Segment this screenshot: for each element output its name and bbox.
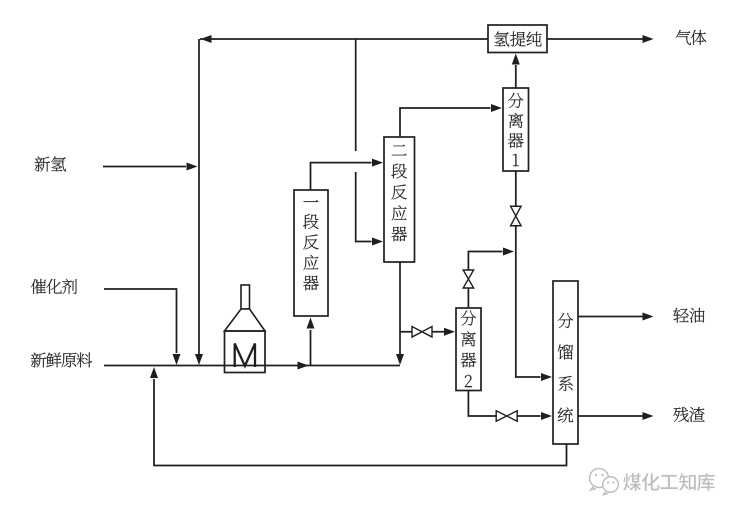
- wire reactor2 bottom drop: [399, 262, 401, 354]
- wire reactor2 bottoms branch to separator2: [400, 331, 445, 333]
- label 二段反应器: [392, 145, 407, 156]
- label 分馏系统: [558, 313, 573, 328]
- wire riser into reactor1: [310, 330, 312, 366]
- arrowhead right gas outlet: [643, 35, 654, 43]
- wire light-oil outlet: [578, 316, 644, 318]
- wire main feed line: [104, 365, 400, 367]
- wire H2-purifier to gas outlet: [547, 38, 644, 40]
- wire residue outlet: [578, 415, 644, 417]
- wire separator1 top to H2-purifier: [515, 65, 517, 88]
- label 气体 gas: [676, 30, 691, 45]
- reactor1 box 一段反应器: [294, 190, 328, 316]
- valve V3 on separator2 gas: [463, 270, 474, 288]
- valve V2 on separator1 bottoms: [511, 206, 522, 226]
- arrowhead right light-oil: [643, 313, 654, 321]
- separator1 box 分离器1: [503, 88, 529, 171]
- valve V1 on separator2 feed: [412, 327, 432, 338]
- arrowhead right into separator2 inlet: [444, 328, 455, 336]
- arrowhead down catalyst onto feed line: [173, 354, 181, 365]
- mixer M body: [225, 331, 266, 373]
- wire recycle-H2 left downcomer: [198, 39, 200, 354]
- arrowhead right on feed line: [298, 362, 309, 370]
- arrowhead right into fractionator upper inlet: [541, 373, 552, 381]
- label 催化剂 catalyst: [31, 279, 46, 294]
- wire new-hydrogen inlet: [103, 166, 186, 168]
- watermark chat-bubble icon: [590, 469, 619, 495]
- arrowhead up into reactor1 bottom: [307, 318, 315, 329]
- wire fractionator bottoms recycle: [154, 379, 567, 466]
- wire separator1 bottom upper segment: [515, 171, 517, 206]
- arrowhead right into reactor2 upper inlet: [372, 159, 383, 167]
- watermark text 煤化工知库: [623, 473, 641, 491]
- wire separator2 top gas upper: [467, 288, 469, 308]
- label 残渣 residue: [673, 407, 688, 422]
- label 新氢 new hydrogen: [35, 156, 50, 171]
- wire reactor2 top to separator1: [400, 108, 491, 137]
- reactor2 box 二段反应器: [384, 137, 415, 262]
- arrowhead right into fractionator lower inlet: [541, 412, 552, 420]
- arrowhead right joining separator1 bottoms line: [503, 248, 514, 256]
- label 新鲜原料 fresh feed: [31, 352, 46, 367]
- fractionator box 分馏系统: [553, 281, 578, 444]
- label 分离器2: [461, 310, 476, 325]
- label 一段反应器: [304, 200, 319, 202]
- valve V4 on separator2 bottoms: [496, 411, 517, 422]
- wire separator1 bottoms to fractionator: [516, 226, 541, 377]
- label 轻油 light oil: [673, 308, 688, 323]
- wire separator2 gas join: [468, 252, 502, 271]
- mixer M neck: [241, 285, 250, 309]
- wire recycle-H2 top header: [200, 38, 488, 40]
- label 氢提纯: [494, 31, 509, 46]
- arrowhead right residue: [643, 412, 654, 420]
- arrowhead up recycle into feed line: [150, 367, 158, 378]
- arrowhead up into H2-purifier: [512, 54, 520, 65]
- arrowhead down onto feed line x=199: [195, 354, 203, 365]
- wire reactor1 top to reactor2 inlet: [311, 163, 372, 190]
- mixer M hopper: [225, 309, 266, 331]
- separator2 box 分离器2: [456, 308, 481, 391]
- arrowhead right into separator1 inlet: [491, 104, 502, 112]
- label 分离器1: [508, 93, 523, 108]
- wire separator2 bottoms: [468, 391, 540, 417]
- arrowhead down reactor2 bottoms onto feed line: [396, 354, 404, 365]
- arrowhead right into reactor2 lower inlet: [372, 238, 383, 246]
- mixer M letter: [235, 344, 255, 368]
- wire catalyst inlet: [104, 289, 177, 353]
- arrowhead left at top header corner: [201, 35, 212, 43]
- H2-purifier box 氢提纯: [488, 25, 547, 53]
- wire H2 branch vertical upper: [355, 39, 357, 151]
- wire H2 branch vertical lower + inlet to reactor2: [356, 172, 372, 242]
- arrowhead right into downcomer: [187, 163, 198, 171]
